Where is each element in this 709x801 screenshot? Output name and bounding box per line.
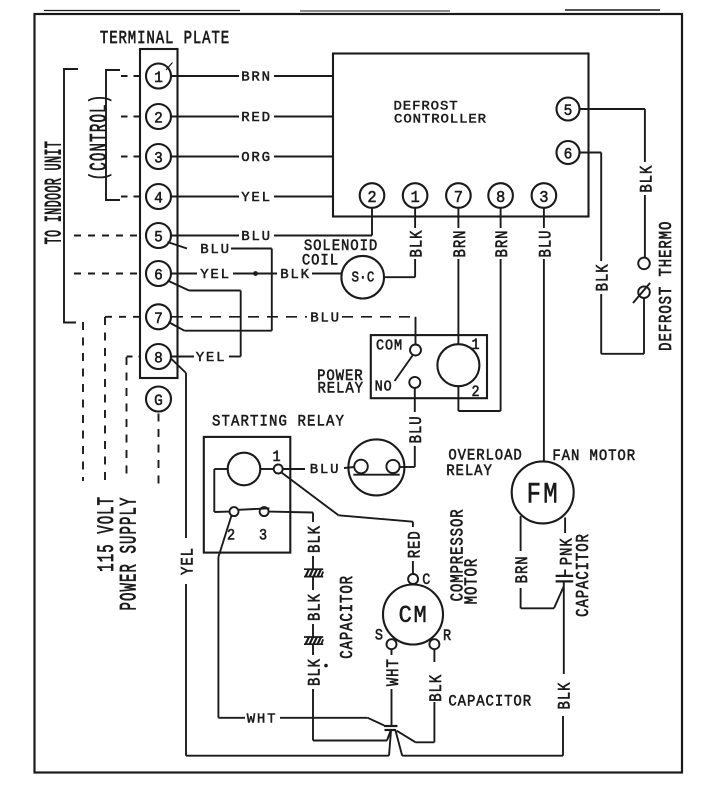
svg-text:R: R (443, 628, 451, 645)
starting relay (204, 437, 290, 553)
wire YEL-BLK terminal 6 to solenoid coil (171, 273, 197, 275)
wire BLU jumper terminal 5 to terminal 7 (168, 242, 188, 249)
svg-text:4: 4 (154, 189, 163, 208)
starting relay blade (238, 508, 269, 510)
power relay coil (437, 344, 479, 386)
svg-text:1: 1 (154, 68, 163, 87)
starting relay pin 3 (260, 507, 269, 516)
wire dashed stub to terminal 8 (127, 356, 141, 358)
svg-text:BLK: BLK (555, 682, 575, 710)
svg-text:BRN: BRN (493, 230, 513, 258)
power relay blade (395, 355, 413, 381)
wire BLU dashed terminal 7 to power relay COM (172, 316, 307, 318)
wire BLU starting relay pin 1 to overload relay (283, 468, 305, 470)
svg-text:BRN: BRN (241, 70, 272, 86)
wire WHT compressor S to run capacitor (391, 649, 393, 655)
svg-text:BLK: BLK (593, 263, 613, 291)
starting relay pin 2 (230, 507, 239, 516)
svg-text:ORG: ORG (241, 150, 272, 166)
svg-text:BLK: BLK (637, 165, 657, 193)
wire BLK capacitor chain middle (312, 577, 314, 590)
starting relay pin 1 (274, 465, 283, 474)
svg-text:5: 5 (154, 228, 163, 247)
terminal G (146, 387, 171, 412)
svg-text:RED: RED (241, 110, 272, 126)
svg-text:FAN MOTOR: FAN MOTOR (552, 448, 636, 465)
fan motor FM (512, 461, 574, 523)
svg-text:G: G (154, 391, 163, 410)
svg-text:C: C (422, 572, 430, 589)
wire BLU power relay NO to overload relay (414, 388, 416, 412)
wire dashed power leg C (126, 357, 128, 481)
svg-text:3: 3 (154, 149, 163, 168)
svg-text:TERMINAL PLATE: TERMINAL PLATE (100, 27, 230, 49)
svg-text:2: 2 (227, 528, 235, 545)
svg-text:2: 2 (471, 384, 479, 401)
controller pin 2 (360, 183, 385, 208)
svg-text:(CONTROL): (CONTROL) (86, 94, 113, 181)
defrost controller U1 (333, 54, 589, 217)
svg-text:WHT: WHT (384, 658, 404, 686)
wire dashed power leg A (82, 322, 84, 481)
svg-text:S: S (375, 628, 383, 645)
svg-text:MOTOR: MOTOR (461, 558, 482, 604)
svg-text:5: 5 (564, 101, 573, 120)
wire dashed control stub to terminal 2 (121, 116, 140, 118)
controller pin 5 (557, 98, 580, 121)
wire BLK controller pin 5 to defrost thermo (580, 108, 645, 110)
wire BLK compressor R to run capacitor (433, 649, 435, 662)
compressor terminal R (429, 639, 439, 649)
svg-text:BLK: BLK (407, 230, 427, 258)
wire RED starting relay pin 1 to compressor C (282, 473, 339, 516)
svg-text:6: 6 (564, 145, 573, 164)
svg-text:RED: RED (405, 530, 425, 558)
terminal 7 (146, 304, 171, 329)
svg-text:BLK: BLK (305, 593, 325, 621)
svg-text:BLK: BLK (426, 674, 446, 702)
wire dashed to terminal 6 (74, 273, 140, 275)
terminal 4 (146, 184, 171, 209)
wire BRN controller pin 8 to power relay coil 2 (500, 208, 502, 228)
svg-text:2: 2 (367, 188, 376, 208)
wire YEL terminal 8 down left side (172, 359, 187, 373)
wire coil to pin 1 (260, 468, 273, 470)
junction dot terminal 6 wire (253, 271, 258, 276)
svg-text:YEL: YEL (178, 547, 198, 575)
svg-text:CAPACITOR: CAPACITOR (572, 533, 593, 617)
compressor terminal S (387, 639, 397, 649)
svg-text:RELAY: RELAY (446, 464, 492, 481)
wire PNK fan motor to fan capacitor (564, 518, 566, 534)
wire coil to pin 2 (214, 468, 227, 470)
terminal 3 (146, 144, 171, 169)
wire YEL jumper terminal 6 to terminal 8 (168, 281, 190, 291)
svg-text:WHT: WHT (247, 711, 278, 727)
svg-text:3: 3 (539, 188, 548, 208)
wire BRN controller pin 7 to power relay coil 1 (457, 208, 459, 228)
wire BRN fan motor (520, 516, 522, 551)
wire WHT bottom (218, 717, 245, 719)
svg-text:BLU: BLU (310, 462, 341, 478)
svg-text:BLK: BLK (305, 525, 325, 553)
wire dashed control stub to terminal 3 (121, 156, 140, 158)
capacitor C1 (304, 568, 323, 570)
svg-text:YEL: YEL (200, 267, 231, 283)
svg-text:1: 1 (410, 188, 419, 208)
wire pin 3 to capacitor chain (269, 511, 313, 514)
svg-text:BLU: BLU (200, 242, 231, 258)
terminal 1 (146, 64, 171, 89)
svg-text:7: 7 (454, 188, 463, 208)
bracket (CONTROL) (106, 70, 120, 200)
controller pin 3 (532, 183, 557, 208)
wire pin 2 to WHT (218, 516, 231, 558)
svg-text:TO INDOOR UNIT: TO INDOOR UNIT (43, 141, 68, 245)
terminal 2 (146, 104, 171, 129)
power relay COM contact (410, 345, 421, 356)
svg-text:7: 7 (154, 309, 163, 328)
controller pin 6 (557, 141, 580, 164)
svg-text:POWER SUPPLY: POWER SUPPLY (116, 497, 143, 611)
dot mark near chain (324, 664, 328, 668)
svg-text:YEL: YEL (196, 350, 227, 366)
wire BLK capacitor chain bottom (312, 644, 314, 655)
svg-text:2: 2 (154, 109, 163, 128)
svg-text:STARTING RELAY: STARTING RELAY (212, 412, 345, 431)
svg-text:FM: FM (527, 479, 560, 512)
wire BLU controller pin 3 to fan motor (543, 208, 545, 228)
svg-text:NO: NO (375, 379, 393, 396)
svg-text:BRN: BRN (513, 555, 533, 583)
svg-text:6: 6 (154, 266, 163, 285)
wire dashed control stub to terminal 4 (121, 196, 140, 198)
controller pin 1 (403, 183, 428, 208)
svg-text:1: 1 (273, 449, 281, 466)
wire dashed power leg B (104, 317, 106, 481)
starting relay coil (228, 453, 261, 486)
svg-text:CAPACITOR: CAPACITOR (336, 575, 357, 659)
wire dashed control stub to terminal 1 (121, 75, 140, 77)
svg-text:3: 3 (259, 528, 267, 545)
svg-text:BLK: BLK (305, 658, 325, 686)
controller pin 7 (446, 183, 471, 208)
wire YEL terminal 4 to controller (171, 196, 239, 198)
terminal 5 (146, 223, 171, 248)
terminal 8 (146, 344, 171, 369)
compressor motor CM (383, 585, 443, 645)
wire BLK controller pin 6 to defrost thermo (580, 152, 602, 154)
wire bottom common left segment (186, 755, 389, 757)
svg-text:RELAY: RELAY (317, 381, 363, 398)
terminal plate (140, 49, 178, 378)
svg-text:BRN: BRN (450, 230, 470, 258)
fan capacitor (556, 575, 574, 577)
overload relay OL (348, 439, 404, 495)
svg-text:BLU: BLU (241, 229, 272, 245)
svg-text:YEL: YEL (241, 190, 272, 206)
svg-text:8: 8 (154, 349, 163, 368)
svg-text:OVERLOAD: OVERLOAD (448, 448, 522, 465)
svg-text:S·C: S·C (351, 271, 374, 287)
svg-text:1: 1 (471, 337, 479, 354)
wire RED terminal 2 to controller (171, 116, 239, 118)
svg-text:CAPACITOR: CAPACITOR (448, 694, 532, 711)
svg-text:BLU: BLU (407, 415, 427, 443)
svg-text:CM: CM (399, 602, 429, 629)
svg-text:8: 8 (496, 188, 505, 208)
wire ORG terminal 3 to controller (171, 156, 239, 158)
run capacitor (384, 725, 398, 727)
wire BLK capacitor chain top (312, 513, 314, 523)
wire dashed to terminal 5 (74, 235, 140, 237)
wire BLU terminal 5 to controller pin 2 (171, 235, 239, 237)
svg-text:CONTROLLER: CONTROLLER (394, 113, 487, 128)
wire BRN terminal 1 to controller (171, 75, 239, 77)
power relay K1 (371, 335, 487, 398)
svg-text:COM: COM (376, 338, 403, 355)
wire bottom common right segment (402, 755, 563, 757)
wire BLK fan capacitor to bottom common (563, 581, 565, 674)
bracket TO INDOOR UNIT (64, 69, 78, 323)
svg-text:COIL: COIL (302, 253, 339, 270)
wire BLK controller pin 1 to solenoid coil (414, 208, 416, 228)
compressor terminal C (408, 574, 418, 584)
terminal 6 (146, 261, 171, 286)
svg-text:BLU: BLU (310, 310, 341, 326)
solenoid coil SC (341, 256, 384, 299)
controller pin 8 (488, 183, 513, 208)
svg-text:DEFROST THERMO: DEFROST THERMO (655, 221, 676, 351)
defrost thermo switch (638, 258, 650, 270)
capacitor C2 (304, 636, 323, 638)
power relay NO contact (409, 377, 420, 388)
wire dashed power leg G (158, 414, 160, 485)
svg-text:BLU: BLU (536, 230, 556, 258)
wire dashed stub to terminal 7 (105, 316, 140, 318)
